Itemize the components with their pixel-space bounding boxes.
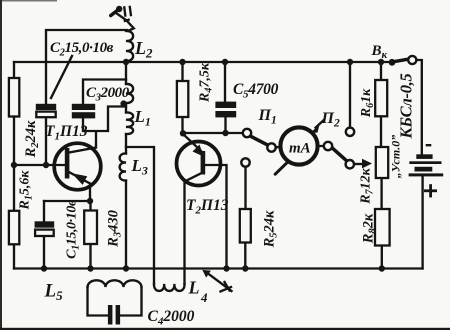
svg-text:R15,6к: R15,6к: [18, 170, 35, 211]
svg-text:Вк: Вк: [371, 43, 388, 61]
svg-text:4: 4: [200, 290, 208, 305]
svg-text:C115,0·10в: C115,0·10в: [65, 199, 82, 259]
svg-text:C32000: C32000: [86, 85, 130, 104]
svg-text:L1: L1: [134, 107, 151, 129]
svg-text:„Уст.0”: „Уст.0”: [389, 135, 403, 179]
svg-text:Т1П13: Т1П13: [45, 123, 88, 143]
svg-text:КБСл-0,5: КБСл-0,5: [397, 74, 416, 140]
svg-text:R224к: R224к: [23, 120, 41, 158]
svg-text:П2: П2: [321, 110, 340, 130]
svg-text:П1: П1: [258, 107, 277, 127]
svg-text:C42000: C42000: [148, 308, 195, 328]
svg-text:R82к: R82к: [361, 213, 379, 244]
svg-text:C54700: C54700: [233, 81, 279, 101]
svg-text:R3430: R3430: [106, 210, 124, 248]
svg-text:R524к: R524к: [262, 210, 280, 248]
svg-text:L3: L3: [131, 156, 148, 178]
svg-text:C215,0·10в: C215,0·10в: [50, 40, 114, 59]
svg-text:L5: L5: [44, 281, 64, 304]
svg-text:R47,5к: R47,5к: [198, 62, 215, 103]
svg-text:тА: тА: [289, 141, 311, 157]
svg-text:L: L: [188, 278, 200, 298]
svg-text:R712к: R712к: [359, 167, 376, 204]
svg-text:Т2П13: Т2П13: [186, 197, 229, 217]
svg-text:R61к: R61к: [359, 88, 376, 118]
svg-text:L2: L2: [134, 38, 153, 61]
